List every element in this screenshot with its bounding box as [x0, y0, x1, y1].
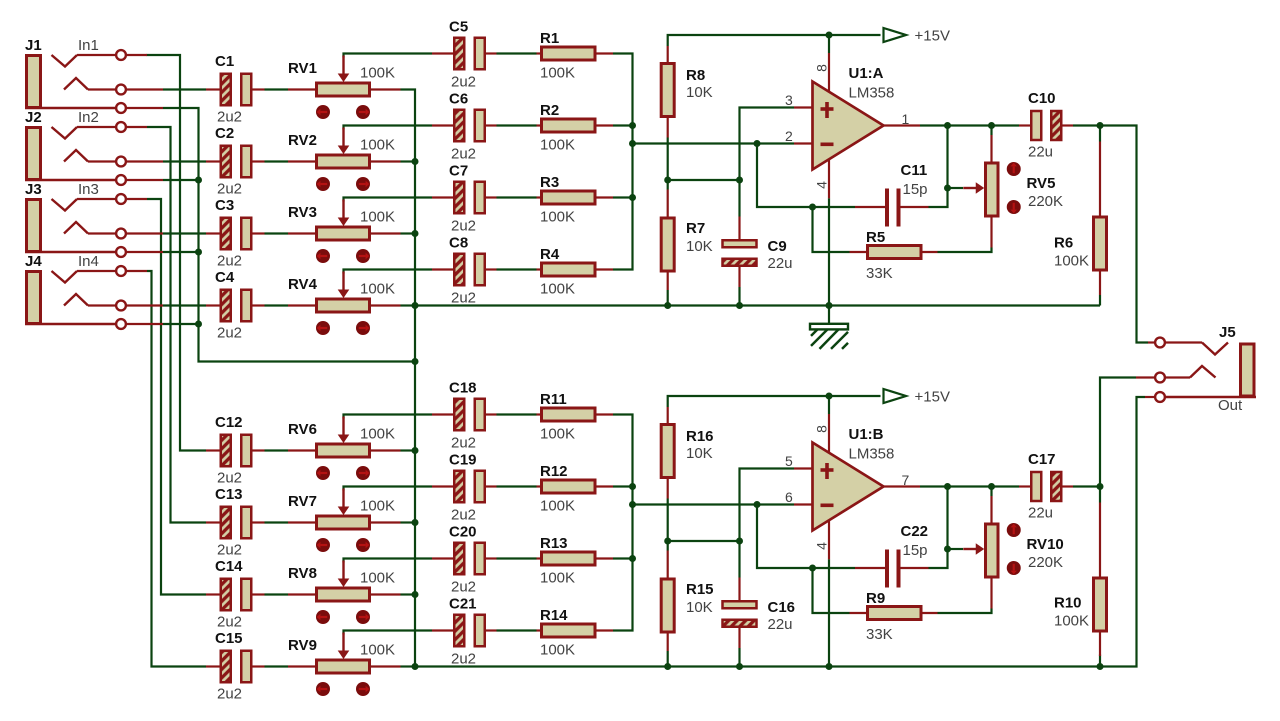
svg-text:R2: R2 — [540, 102, 559, 119]
svg-text:C7: C7 — [449, 163, 468, 180]
svg-text:8: 8 — [814, 64, 830, 72]
svg-text:2u2: 2u2 — [451, 290, 476, 307]
svg-text:R1: R1 — [540, 30, 559, 47]
svg-text:100K: 100K — [540, 281, 575, 298]
svg-text:7: 7 — [902, 472, 910, 488]
svg-text:C19: C19 — [449, 452, 477, 469]
svg-text:2: 2 — [785, 128, 793, 144]
svg-text:2u2: 2u2 — [451, 146, 476, 163]
svg-text:2u2: 2u2 — [451, 579, 476, 596]
svg-text:RV3: RV3 — [288, 204, 317, 221]
svg-text:2u2: 2u2 — [217, 470, 242, 487]
svg-text:2u2: 2u2 — [451, 507, 476, 524]
svg-text:4: 4 — [814, 542, 830, 550]
svg-text:R11: R11 — [540, 391, 567, 408]
svg-text:2u2: 2u2 — [451, 435, 476, 452]
svg-text:RV6: RV6 — [288, 421, 317, 438]
svg-text:220K: 220K — [1028, 554, 1063, 571]
svg-text:2u2: 2u2 — [451, 651, 476, 668]
svg-text:C17: C17 — [1028, 451, 1056, 468]
svg-text:100K: 100K — [360, 281, 395, 298]
svg-text:100K: 100K — [360, 642, 395, 659]
svg-text:4: 4 — [814, 181, 830, 189]
svg-text:100K: 100K — [360, 570, 395, 587]
svg-text:C21: C21 — [449, 596, 477, 613]
svg-text:C6: C6 — [449, 91, 468, 108]
svg-text:Out: Out — [1218, 397, 1243, 414]
svg-text:RV7: RV7 — [288, 493, 317, 510]
svg-text:C9: C9 — [768, 238, 787, 255]
svg-text:3: 3 — [785, 92, 793, 108]
svg-text:33K: 33K — [866, 626, 893, 643]
svg-text:J2: J2 — [25, 109, 42, 126]
svg-text:C15: C15 — [215, 630, 243, 647]
svg-text:U1:A: U1:A — [849, 65, 884, 82]
svg-text:R14: R14 — [540, 607, 568, 624]
svg-text:C18: C18 — [449, 380, 477, 397]
svg-text:2u2: 2u2 — [217, 325, 242, 342]
svg-text:15p: 15p — [903, 181, 928, 198]
svg-text:R4: R4 — [540, 246, 560, 263]
svg-text:R7: R7 — [686, 220, 705, 237]
svg-text:R13: R13 — [540, 535, 568, 552]
svg-text:2u2: 2u2 — [217, 542, 242, 559]
svg-text:100K: 100K — [360, 209, 395, 226]
svg-text:10K: 10K — [686, 84, 713, 101]
svg-text:R3: R3 — [540, 174, 559, 191]
svg-text:100K: 100K — [540, 137, 575, 154]
svg-text:RV8: RV8 — [288, 565, 317, 582]
svg-text:R12: R12 — [540, 463, 568, 480]
svg-text:100K: 100K — [540, 426, 575, 443]
svg-text:C16: C16 — [768, 599, 796, 616]
svg-text:100K: 100K — [540, 642, 575, 659]
svg-text:2u2: 2u2 — [217, 109, 242, 126]
svg-text:R15: R15 — [686, 581, 714, 598]
svg-text:C11: C11 — [901, 162, 928, 179]
svg-text:100K: 100K — [360, 65, 395, 82]
svg-text:100K: 100K — [360, 498, 395, 515]
svg-text:2u2: 2u2 — [217, 181, 242, 198]
svg-text:C1: C1 — [215, 53, 234, 70]
svg-text:R10: R10 — [1054, 595, 1082, 612]
svg-text:RV9: RV9 — [288, 637, 317, 654]
svg-text:R16: R16 — [686, 428, 714, 445]
svg-text:C3: C3 — [215, 197, 234, 214]
svg-text:15p: 15p — [903, 542, 928, 559]
svg-text:R9: R9 — [866, 590, 885, 607]
svg-text:10K: 10K — [686, 238, 713, 255]
svg-text:C4: C4 — [215, 269, 235, 286]
svg-text:2u2: 2u2 — [217, 253, 242, 270]
svg-text:R6: R6 — [1054, 235, 1073, 252]
svg-text:J1: J1 — [25, 37, 42, 54]
svg-text:2u2: 2u2 — [217, 686, 242, 703]
svg-text:22u: 22u — [1028, 144, 1053, 161]
svg-text:100K: 100K — [360, 426, 395, 443]
svg-text:U1:B: U1:B — [849, 426, 884, 443]
svg-text:2u2: 2u2 — [217, 614, 242, 631]
svg-text:In2: In2 — [78, 109, 99, 126]
svg-text:10K: 10K — [686, 599, 713, 616]
svg-text:In1: In1 — [78, 37, 99, 54]
svg-text:10K: 10K — [686, 445, 713, 462]
svg-text:In3: In3 — [78, 181, 99, 198]
svg-text:+15V: +15V — [915, 28, 950, 45]
svg-text:RV1: RV1 — [288, 60, 317, 77]
svg-text:R5: R5 — [866, 229, 885, 246]
svg-text:1: 1 — [902, 111, 910, 127]
svg-text:100K: 100K — [540, 65, 575, 82]
svg-text:+15V: +15V — [915, 389, 950, 406]
svg-text:C22: C22 — [901, 523, 929, 540]
svg-text:C10: C10 — [1028, 90, 1056, 107]
svg-text:C13: C13 — [215, 486, 243, 503]
svg-text:RV10: RV10 — [1027, 536, 1064, 553]
svg-text:RV5: RV5 — [1027, 175, 1056, 192]
svg-text:100K: 100K — [360, 137, 395, 154]
svg-text:5: 5 — [785, 453, 793, 469]
svg-text:22u: 22u — [768, 616, 793, 633]
svg-text:100K: 100K — [1054, 253, 1089, 270]
svg-text:J4: J4 — [25, 253, 42, 270]
svg-text:100K: 100K — [540, 498, 575, 515]
svg-text:220K: 220K — [1028, 193, 1063, 210]
svg-text:2u2: 2u2 — [451, 74, 476, 91]
svg-text:C5: C5 — [449, 19, 468, 36]
svg-text:LM358: LM358 — [849, 85, 895, 102]
svg-text:100K: 100K — [540, 570, 575, 587]
svg-text:C14: C14 — [215, 558, 243, 575]
svg-text:C8: C8 — [449, 235, 468, 252]
svg-text:100K: 100K — [1054, 613, 1089, 630]
svg-text:100K: 100K — [540, 209, 575, 226]
svg-text:22u: 22u — [1028, 505, 1053, 522]
svg-text:2u2: 2u2 — [451, 218, 476, 235]
svg-text:LM358: LM358 — [849, 446, 895, 463]
svg-text:6: 6 — [785, 489, 793, 505]
svg-text:C20: C20 — [449, 524, 477, 541]
svg-text:C2: C2 — [215, 125, 234, 142]
svg-text:C12: C12 — [215, 414, 243, 431]
svg-text:In4: In4 — [78, 253, 99, 270]
svg-text:R8: R8 — [686, 67, 705, 84]
svg-text:33K: 33K — [866, 265, 893, 282]
svg-text:RV4: RV4 — [288, 276, 318, 293]
svg-text:J5: J5 — [1219, 324, 1236, 341]
svg-text:22u: 22u — [768, 255, 793, 272]
svg-text:RV2: RV2 — [288, 132, 317, 149]
svg-text:J3: J3 — [25, 181, 42, 198]
svg-text:8: 8 — [814, 425, 830, 433]
